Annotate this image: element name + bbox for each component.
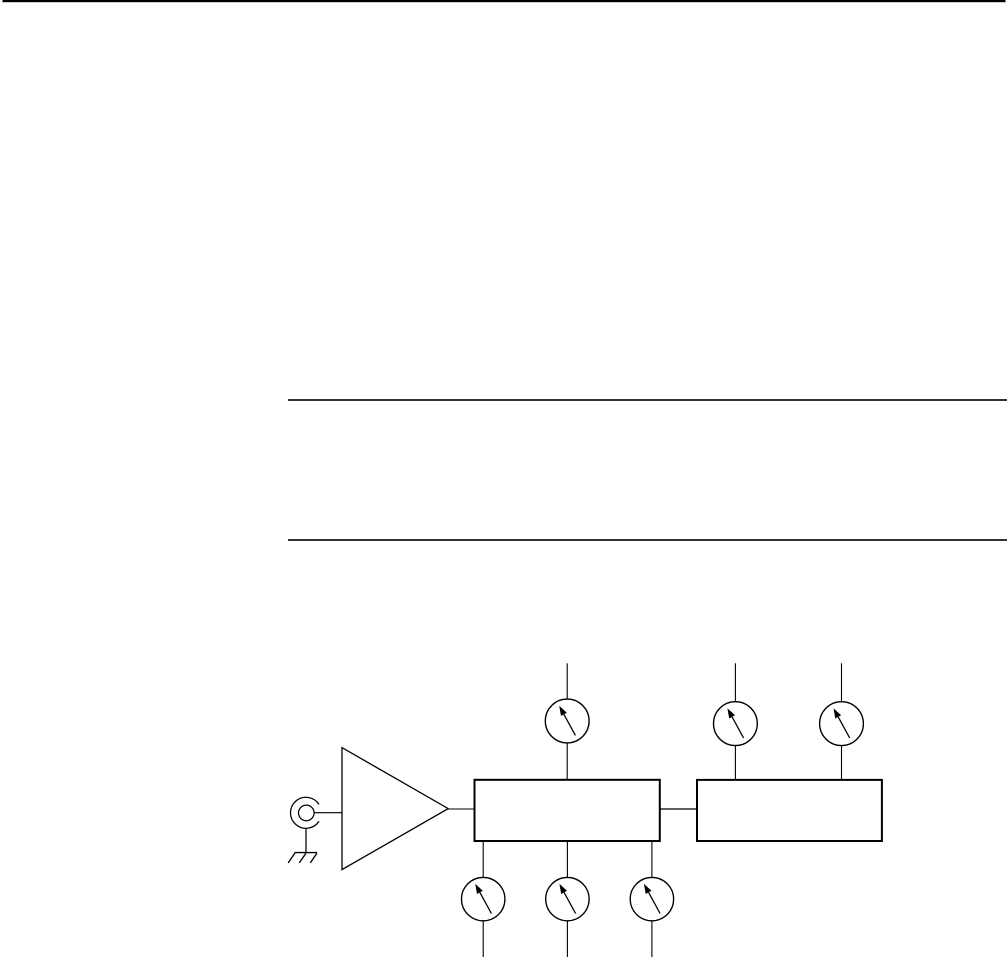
block 2 — [697, 780, 882, 841]
wire connector to amplifier input — [314, 812, 342, 814]
wire connector to ground — [305, 828, 307, 852]
wire block 1 bottom to meter M6 — [651, 841, 653, 877]
wire meter M1 to block 1 top — [566, 743, 568, 780]
meter M2 — [714, 702, 758, 746]
section rule bottom — [288, 539, 1007, 541]
meter M4 — [462, 877, 505, 920]
wire meter M2 to block 2 top — [734, 746, 736, 780]
wire meter M6 stub below — [651, 921, 653, 957]
wire amplifier output to block 1 — [448, 808, 474, 810]
connector J1 center conductor — [299, 805, 315, 821]
wire meter M4 stub below — [482, 921, 484, 957]
wire block 1 bottom to meter M5 — [566, 841, 568, 877]
wire meter M5 stub below — [566, 921, 568, 957]
amplifier A1 — [342, 748, 448, 870]
wire meter M2 stub above — [734, 663, 736, 701]
wire block 1 to block 2 — [660, 808, 697, 810]
ground — [288, 853, 317, 863]
wire meter M3 to block 2 top — [841, 746, 843, 780]
meter M3 — [820, 702, 864, 746]
meter M5 — [546, 877, 589, 920]
connector J1 outer shield arc — [290, 797, 319, 828]
meter M6 — [630, 877, 673, 920]
wire meter M3 stub above — [841, 663, 843, 701]
block 1 — [475, 780, 660, 841]
wire meter M1 stub above — [566, 663, 568, 699]
meter M1 — [545, 699, 589, 743]
section rule top — [288, 399, 1007, 401]
wire block 1 bottom to meter M4 — [482, 841, 484, 877]
top page rule — [3, 0, 1006, 2]
